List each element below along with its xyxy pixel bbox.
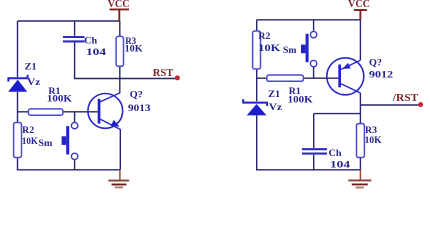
svg-text:9012: 9012 [369, 71, 393, 81]
svg-text:10K: 10K [22, 137, 39, 147]
svg-text:Ch: Ch [84, 37, 98, 47]
svg-text:R2: R2 [22, 126, 34, 136]
svg-text:Vz: Vz [27, 78, 41, 88]
svg-text:RST: RST [153, 68, 174, 79]
svg-text:100K: 100K [47, 95, 73, 105]
svg-text:Z1: Z1 [25, 62, 37, 72]
svg-text:104: 104 [330, 161, 350, 171]
svg-text:R3: R3 [365, 126, 377, 136]
svg-text:VCC: VCC [348, 0, 370, 10]
svg-text:104: 104 [86, 48, 106, 58]
svg-text:Q?: Q? [369, 58, 382, 68]
svg-text:Q?: Q? [130, 91, 143, 101]
svg-text:VCC: VCC [108, 0, 130, 10]
svg-text:/RST: /RST [392, 93, 419, 104]
svg-text:10K: 10K [258, 44, 281, 54]
svg-text:Z1: Z1 [268, 90, 280, 100]
svg-text:9013: 9013 [128, 104, 151, 114]
svg-text:Sm: Sm [283, 46, 297, 56]
svg-text:10K: 10K [365, 136, 383, 146]
svg-text:Sm: Sm [38, 139, 52, 149]
svg-text:Ch: Ch [329, 149, 343, 159]
svg-text:100K: 100K [288, 96, 314, 106]
svg-text:10K: 10K [125, 44, 144, 54]
svg-text:R2: R2 [258, 32, 270, 42]
svg-text:Vz: Vz [269, 103, 283, 113]
